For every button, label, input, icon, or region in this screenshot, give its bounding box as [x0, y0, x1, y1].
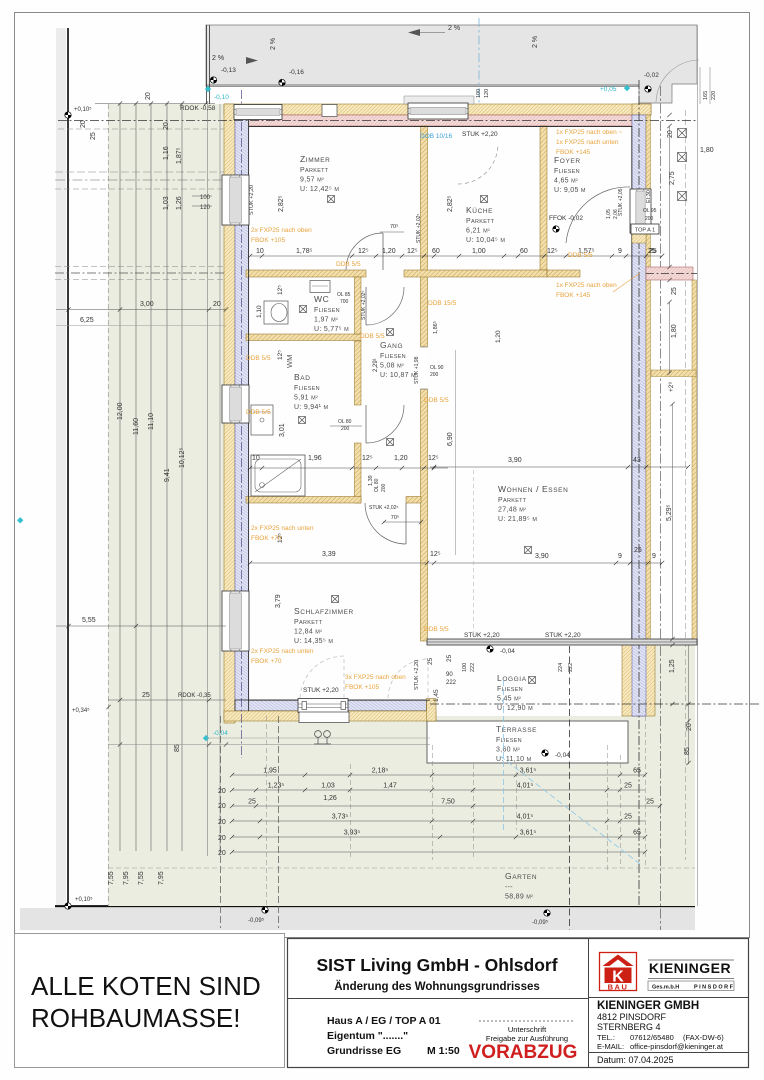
svg-text:FBOK +145: FBOK +145 — [556, 292, 591, 299]
svg-text:2 %: 2 % — [270, 38, 277, 50]
garden right strip — [651, 645, 695, 906]
svg-text:12⁵: 12⁵ — [277, 350, 284, 360]
top band inner edge line — [206, 84, 639, 86]
svg-text:P I N S D O R F: P I N S D O R F — [694, 985, 734, 991]
garden tiny markers — [315, 731, 322, 738]
svg-text:6,21 M²: 6,21 M² — [466, 228, 490, 235]
svg-text:7,95: 7,95 — [158, 871, 165, 885]
garden dashed boundary left — [108, 104, 110, 906]
left dim 5,55 line — [56, 625, 226, 627]
symbol Gang upper — [387, 329, 394, 336]
svg-text:STUK +2,02⁵: STUK +2,02⁵ — [369, 505, 398, 511]
svg-text:65: 65 — [633, 768, 641, 775]
room label Zimmer — [300, 154, 339, 193]
svg-text:20: 20 — [667, 130, 674, 138]
svg-text:1,16: 1,16 — [163, 146, 170, 160]
svg-text:-0,13: -0,13 — [221, 67, 236, 74]
room label Bad — [294, 372, 329, 411]
svg-text:FLIESEN: FLIESEN — [497, 686, 523, 693]
room label Terrasse — [496, 724, 537, 763]
svg-text:FFOK -0,02: FFOK -0,02 — [549, 215, 583, 222]
svg-text:58,89 M²: 58,89 M² — [505, 894, 533, 901]
svg-text:OL 80: OL 80 — [374, 478, 380, 492]
svg-text:12⁵: 12⁵ — [277, 285, 284, 295]
svg-text:9,57 M²: 9,57 M² — [300, 177, 324, 184]
wall Zimmer/Kueche + Gang/Wohnen — [421, 126, 428, 347]
svg-text:25: 25 — [634, 547, 642, 554]
svg-text:65: 65 — [633, 830, 641, 837]
svg-text:1,80: 1,80 — [671, 324, 678, 338]
svg-text:-0,09⁵: -0,09⁵ — [248, 917, 265, 924]
svg-text:Datum: 07.04.2025: Datum: 07.04.2025 — [597, 1055, 674, 1065]
svg-text:FLIESEN: FLIESEN — [496, 737, 522, 744]
neighbour wall horizontal — [651, 370, 696, 377]
svg-text:10: 10 — [252, 455, 260, 462]
svg-text:3,01: 3,01 — [279, 423, 286, 437]
svg-text:25: 25 — [142, 692, 150, 699]
svg-text:1,20: 1,20 — [382, 248, 396, 255]
svg-text:1,05: 1,05 — [606, 209, 612, 219]
svg-text:6,25: 6,25 — [80, 317, 94, 324]
inner face line right wall — [631, 126, 633, 639]
door WC leaf+arc — [366, 287, 404, 325]
cyan marker left border — [17, 517, 23, 523]
left site boundary wall line — [67, 28, 69, 906]
door Schlafzimmer leaf+arc — [365, 503, 406, 544]
svg-text:5,29⁵: 5,29⁵ — [666, 504, 673, 521]
svg-text:3,73⁵: 3,73⁵ — [332, 814, 349, 821]
svg-text:20: 20 — [218, 803, 226, 810]
room label Wohnen/Essen — [498, 484, 568, 523]
exterior wall top (brick) — [224, 104, 651, 115]
wall stub right of Schlafzimmer door — [406, 497, 421, 504]
loggia right pillar brick — [622, 644, 655, 716]
svg-text:STUK +2,20: STUK +2,20 — [249, 185, 255, 215]
svg-text:2 %: 2 % — [532, 36, 539, 48]
svg-text:1,10: 1,10 — [256, 305, 263, 318]
svg-text:7,55: 7,55 — [138, 871, 145, 885]
loggia right pillar insulation — [632, 644, 646, 716]
svg-text:200: 200 — [430, 372, 439, 378]
garden chain row 3 — [232, 805, 660, 807]
wall WC/Bad — [246, 334, 361, 341]
svg-text:12⁵: 12⁵ — [358, 248, 369, 255]
dim row Bad — [250, 467, 448, 469]
marker -0,16 — [279, 79, 285, 85]
svg-text:4812 PINSDORF: 4812 PINSDORF — [597, 1012, 667, 1022]
window right wall Foyer entry — [630, 189, 651, 233]
svg-text:20: 20 — [218, 819, 226, 826]
dim row Wohnen mid — [430, 562, 662, 564]
dashed horizontals upper left — [55, 171, 224, 173]
svg-text:2x FXP25 nach unten: 2x FXP25 nach unten — [251, 525, 314, 532]
wall Bad-Gang vertical — [355, 341, 362, 405]
room label Kueche — [466, 205, 505, 244]
KIENINGER logo — [600, 953, 637, 992]
svg-text:12,84 M²: 12,84 M² — [294, 629, 322, 636]
svg-text:3,60 M²: 3,60 M² — [496, 747, 520, 754]
right wall brick edge — [646, 115, 651, 644]
wall under Zimmer/Kueche row — [246, 270, 366, 277]
svg-text:M 1:50: M 1:50 — [427, 1045, 460, 1057]
svg-text:STUK +2,02⁵: STUK +2,02⁵ — [416, 214, 422, 243]
svg-text:222: 222 — [470, 663, 476, 672]
garden line y744 — [108, 744, 430, 746]
svg-text:EI:30: EI:30 — [646, 190, 652, 203]
terrace slab — [427, 721, 628, 763]
svg-text:9: 9 — [618, 248, 622, 255]
wall Foyer bottom stub — [547, 270, 580, 277]
wall Bad bottom — [246, 497, 361, 504]
svg-text:25: 25 — [90, 132, 97, 140]
svg-text:-0,04: -0,04 — [500, 648, 515, 655]
svg-text:VORABZUG: VORABZUG — [469, 1042, 578, 1063]
svg-text:-0,04: -0,04 — [555, 752, 570, 759]
marker +0,10 top — [65, 112, 71, 118]
svg-text:DOB 10/16: DOB 10/16 — [420, 133, 453, 140]
svg-text:25: 25 — [671, 287, 678, 295]
svg-text:20: 20 — [686, 723, 693, 731]
svg-text:1,86⁵: 1,86⁵ — [432, 321, 439, 334]
svg-text:+0,10⁵: +0,10⁵ — [74, 106, 92, 113]
title block frame — [288, 939, 749, 1068]
svg-text:FBOK +105: FBOK +105 — [251, 237, 286, 244]
svg-text:70⁵: 70⁵ — [390, 223, 398, 230]
left extra verticals — [207, 104, 209, 856]
svg-text:85: 85 — [174, 744, 181, 752]
svg-text:2,82⁵: 2,82⁵ — [447, 195, 454, 212]
loggia glass front — [427, 639, 697, 645]
svg-text:20: 20 — [80, 120, 87, 128]
svg-text:10: 10 — [256, 248, 264, 255]
svg-text:20: 20 — [218, 835, 226, 842]
left dim RDOK line — [108, 699, 226, 701]
svg-text:25: 25 — [646, 799, 654, 806]
marker +0,10 bottom left — [65, 903, 71, 909]
marker terrasse -0,04 — [542, 750, 548, 756]
wall D axis extension left — [55, 266, 224, 268]
top grey roof band — [206, 25, 697, 103]
garden chain row 1 — [232, 774, 645, 776]
svg-text:700: 700 — [340, 299, 349, 305]
window sill top centre — [404, 96, 474, 104]
svg-text:+2⁹: +2⁹ — [668, 382, 675, 392]
room label WC — [314, 294, 349, 333]
dim row under Zimmer/Kueche/Foyer — [250, 255, 662, 257]
svg-text:2 %: 2 % — [448, 25, 460, 32]
svg-text:6,90: 6,90 — [447, 432, 454, 446]
svg-text:12⁵: 12⁵ — [428, 455, 439, 462]
svg-text:PARKETT: PARKETT — [498, 497, 527, 504]
loggia glass front inner line — [427, 641, 697, 643]
svg-text:9,41: 9,41 — [164, 468, 171, 482]
wall WC-Gang vertical — [355, 277, 362, 334]
svg-text:224: 224 — [558, 663, 564, 672]
exterior wall left insulation — [235, 115, 249, 711]
room label Loggia — [497, 673, 533, 712]
vertical axis right wall — [638, 80, 640, 906]
dim row Schlafzimmer — [250, 562, 430, 564]
marker -0,13 — [210, 77, 216, 83]
svg-text:20: 20 — [213, 301, 221, 308]
axis line through top wall — [58, 120, 697, 122]
svg-text:3,90: 3,90 — [535, 553, 549, 560]
svg-text:FLIESEN: FLIESEN — [554, 168, 580, 175]
wall Kueche/Foyer — [540, 126, 547, 270]
room label Gang — [380, 340, 416, 379]
svg-text:1,20: 1,20 — [394, 455, 408, 462]
svg-text:RDOK -0,58: RDOK -0,58 — [180, 105, 216, 112]
svg-text:Grundrisse EG: Grundrisse EG — [327, 1045, 401, 1057]
svg-text:DDB 5/5: DDB 5/5 — [568, 252, 593, 259]
svg-text:120: 120 — [484, 89, 490, 98]
svg-text:2,75: 2,75 — [669, 171, 676, 185]
svg-text:1,96: 1,96 — [308, 455, 322, 462]
svg-text:KIENINGER GMBH: KIENINGER GMBH — [597, 1000, 699, 1012]
garden area left strip — [108, 104, 226, 906]
svg-text:5,08 M²: 5,08 M² — [380, 363, 404, 370]
ALLE KOTEN box — [15, 934, 285, 1068]
svg-text:20: 20 — [218, 850, 226, 857]
door Foyer entry arc — [566, 187, 630, 243]
marker garden cyan -0,04 — [203, 730, 228, 741]
svg-text:4,65 M²: 4,65 M² — [554, 178, 578, 185]
bottom grey path band — [20, 908, 695, 930]
svg-text:(FAX-DW-6): (FAX-DW-6) — [683, 1033, 724, 1042]
svg-text:ROHBAUMASSE!: ROHBAUMASSE! — [31, 1003, 241, 1033]
svg-text:1x FXP25 nach oben ~: 1x FXP25 nach oben ~ — [556, 129, 623, 136]
svg-text:3,61⁵: 3,61⁵ — [520, 830, 537, 837]
svg-text:20: 20 — [145, 92, 152, 100]
svg-text:FBOK +145: FBOK +145 — [556, 149, 591, 156]
dashed vertical in Wohnen — [473, 470, 475, 640]
garden line to marker — [206, 737, 430, 739]
svg-text:FLIESEN: FLIESEN — [294, 385, 320, 392]
svg-text:1,20: 1,20 — [495, 330, 502, 343]
svg-text:25: 25 — [446, 654, 453, 662]
svg-text:U: 12,42⁵ M: U: 12,42⁵ M — [300, 186, 339, 193]
door bottom wall Schlafzimmer — [298, 699, 348, 713]
svg-text:20: 20 — [218, 788, 226, 795]
svg-text:FBOK +70: FBOK +70 — [251, 535, 282, 542]
svg-text:1,45: 1,45 — [433, 689, 440, 702]
svg-text:5,45 M²: 5,45 M² — [497, 696, 521, 703]
svg-text:office-pinsdorf@kieninger.at: office-pinsdorf@kieninger.at — [630, 1042, 724, 1051]
svg-text:OL 95: OL 95 — [643, 208, 657, 214]
svg-text:DDB 5/5: DDB 5/5 — [336, 261, 361, 268]
svg-text:2x FXP25 nach unten: 2x FXP25 nach unten — [251, 648, 314, 655]
svg-text:TOP A 1: TOP A 1 — [635, 228, 655, 234]
symbol WC — [300, 306, 307, 313]
left dim 6,25 line — [56, 325, 226, 327]
svg-text:200: 200 — [341, 426, 350, 432]
svg-text:STERNBERG 4: STERNBERG 4 — [597, 1022, 661, 1032]
svg-text:2,82⁵: 2,82⁵ — [278, 195, 285, 212]
svg-text:90: 90 — [446, 672, 453, 678]
left dim 3,00 line — [56, 309, 226, 311]
marker -0,09 left — [262, 907, 268, 913]
svg-text:60: 60 — [432, 248, 440, 255]
svg-text:ALLE KOTEN SIND: ALLE KOTEN SIND — [31, 971, 261, 1001]
svg-text:FLIESEN: FLIESEN — [380, 353, 406, 360]
svg-text:E-MAIL:: E-MAIL: — [597, 1042, 624, 1051]
svg-text:12⁵: 12⁵ — [547, 248, 558, 255]
svg-text:60: 60 — [520, 248, 528, 255]
corner top right (brick) — [632, 104, 651, 115]
WC toilet — [264, 301, 288, 324]
Bad washbasin — [251, 405, 273, 435]
door step box garden 1 — [299, 712, 349, 723]
column symbol right 2 — [678, 153, 687, 162]
door neighbour arc top right — [656, 60, 699, 102]
svg-text:DDB 15/5: DDB 15/5 — [428, 300, 457, 307]
svg-text:2,06: 2,06 — [613, 209, 619, 219]
svg-text:U: 12,90 M: U: 12,90 M — [497, 705, 533, 712]
svg-text:FBOK +70: FBOK +70 — [251, 658, 282, 665]
svg-text:U: 21,89⁵ M: U: 21,89⁵ M — [498, 516, 537, 523]
inner face line left wall — [248, 115, 250, 711]
svg-text:100: 100 — [476, 89, 482, 98]
svg-text:3,90: 3,90 — [508, 457, 522, 464]
svg-text:U: 9,94¹ M: U: 9,94¹ M — [294, 404, 329, 411]
svg-text:12⁵: 12⁵ — [430, 551, 441, 558]
svg-text:9: 9 — [618, 553, 622, 560]
svg-text:1,47: 1,47 — [383, 783, 397, 790]
svg-text:WM: WM — [285, 355, 294, 368]
svg-text:5,55: 5,55 — [82, 617, 96, 624]
exterior wall bottom (brick) — [224, 711, 436, 721]
symbol Zimmer — [328, 196, 335, 203]
svg-text:7,55: 7,55 — [108, 871, 115, 885]
exterior wall right insulation — [632, 115, 646, 716]
right margin axis — [660, 86, 662, 930]
svg-text:220: 220 — [711, 91, 717, 100]
svg-text:3,00: 3,00 — [140, 301, 154, 308]
neighbour wall vertical — [692, 280, 697, 644]
right margin line2 — [685, 110, 687, 860]
svg-text:STUK +2,20: STUK +2,20 — [545, 632, 581, 639]
svg-text:5,91 M²: 5,91 M² — [294, 395, 318, 402]
svg-text:U: 10,04⁵ M: U: 10,04⁵ M — [466, 237, 505, 244]
svg-text:2,18⁵: 2,18⁵ — [372, 768, 389, 775]
window left wall Zimmer — [222, 175, 249, 225]
svg-text:12⁵: 12⁵ — [407, 248, 418, 255]
svg-text:1x FXP25 nach unten: 1x FXP25 nach unten — [556, 139, 619, 146]
inner face line bottom wall — [248, 699, 430, 701]
garden chain row 5 — [232, 836, 645, 838]
svg-text:U: 9,05 M: U: 9,05 M — [554, 187, 586, 194]
marker +0,05 cyan — [600, 85, 630, 93]
svg-text:PARKETT: PARKETT — [300, 167, 329, 174]
symbol Gang lower — [387, 439, 394, 446]
svg-text:27,48 M²: 27,48 M² — [498, 507, 526, 514]
svg-text:25: 25 — [624, 783, 632, 790]
svg-text:25: 25 — [427, 657, 434, 665]
door garden dashed arc 2 — [388, 659, 428, 698]
column symbol right 1 — [678, 129, 687, 138]
svg-text:DDB 5/5: DDB 5/5 — [246, 355, 271, 362]
left margin tick row top — [95, 103, 215, 105]
garden chain row 2 — [232, 789, 645, 791]
dim row Wohnen top — [430, 466, 688, 468]
door Zimmer leaf+arc — [346, 233, 383, 270]
svg-text:1,26: 1,26 — [176, 196, 183, 210]
svg-text:2 %: 2 % — [212, 55, 224, 62]
bottom wall corner cap — [427, 699, 437, 722]
svg-text:STUK +1,98: STUK +1,98 — [414, 356, 420, 384]
garden chain row 6 — [232, 851, 645, 853]
svg-text:3,93⁵: 3,93⁵ — [344, 830, 361, 837]
marker -0,09 right — [544, 910, 550, 916]
symbol Bad — [299, 417, 306, 424]
symbol Schlafzimmer — [332, 596, 339, 603]
svg-text:70⁵: 70⁵ — [391, 514, 399, 521]
svg-text:100: 100 — [462, 663, 468, 672]
svg-text:U: 14,35⁵ M: U: 14,35⁵ M — [294, 638, 333, 645]
svg-text:RDOK -0,35: RDOK -0,35 — [178, 693, 211, 699]
svg-text:Änderung des Wohnungsgrundriss: Änderung des Wohnungsgrundrisses — [334, 980, 540, 993]
symbol Loggia — [529, 677, 536, 684]
door Kueche dashed arc — [458, 144, 498, 184]
svg-text:STUK +2,20: STUK +2,20 — [303, 687, 339, 694]
svg-text:4,01⁵: 4,01⁵ — [517, 814, 534, 821]
svg-text:STUK +2,20: STUK +2,20 — [462, 131, 498, 138]
svg-text:222: 222 — [446, 680, 457, 686]
svg-text:1,03: 1,03 — [163, 196, 170, 210]
Gesmbh box — [648, 981, 734, 991]
svg-text:25: 25 — [624, 814, 632, 821]
svg-text:-0,10: -0,10 — [214, 94, 229, 101]
label TOP A1 — [631, 224, 659, 234]
svg-text:3,79: 3,79 — [275, 594, 282, 608]
svg-text:FLIESEN: FLIESEN — [314, 307, 340, 314]
svg-text:1,03: 1,03 — [321, 783, 335, 790]
window left wall Schlafzimmer — [222, 591, 249, 651]
svg-text:Unterschrift: Unterschrift — [508, 1025, 547, 1034]
wall B opening gap — [421, 347, 428, 389]
svg-text:+0,34⁵: +0,34⁵ — [72, 707, 90, 714]
svg-text:1x FXP25 nach oben: 1x FXP25 nach oben — [556, 282, 617, 289]
svg-text:U: 10,87 M: U: 10,87 M — [380, 372, 416, 379]
window left wall Bad — [222, 385, 249, 423]
blue vertical loggia line — [503, 680, 505, 830]
party wall pink right — [646, 267, 693, 280]
svg-text:7,50: 7,50 — [441, 799, 455, 806]
svg-text:25: 25 — [248, 799, 256, 806]
svg-text:12,00: 12,00 — [117, 402, 124, 420]
svg-text:OL 85: OL 85 — [337, 292, 351, 298]
svg-text:FBOK +105: FBOK +105 — [345, 684, 380, 691]
axis through pink wall — [646, 273, 697, 275]
exterior wall bottom insulation — [235, 700, 427, 711]
symbol Kueche — [481, 196, 488, 203]
svg-text:STUK +2,20: STUK +2,20 — [414, 660, 420, 690]
svg-text:DDB 5/5: DDB 5/5 — [424, 626, 449, 633]
svg-text:3,39: 3,39 — [322, 551, 336, 558]
svg-text:200: 200 — [645, 216, 654, 222]
wall Gang/Wohnen lower — [421, 389, 428, 641]
entry door jamb yellow — [632, 232, 646, 243]
svg-text:2,29¹: 2,29¹ — [373, 358, 379, 372]
svg-text:OL 90: OL 90 — [430, 365, 444, 371]
svg-text:-0,02: -0,02 — [644, 72, 659, 79]
right neighbour edge — [697, 25, 699, 906]
svg-text:1,80: 1,80 — [700, 147, 714, 154]
svg-text:DDB 5/5: DDB 5/5 — [424, 397, 449, 404]
left grey site band — [56, 28, 66, 906]
svg-text:43: 43 — [633, 457, 641, 464]
door Bad leaf+arc — [366, 405, 404, 443]
